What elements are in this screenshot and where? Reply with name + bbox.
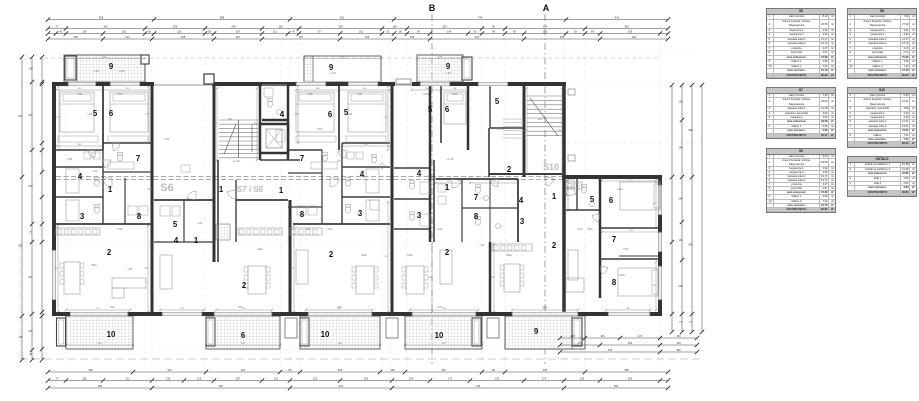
svg-text:233: 233 — [678, 284, 683, 288]
svg-text:5: 5 — [173, 220, 178, 229]
washer room8 unit2 — [297, 206, 306, 215]
svg-text:2: 2 — [242, 281, 247, 290]
svg-text:160: 160 — [676, 341, 681, 345]
svg-text:108: 108 — [390, 368, 395, 372]
svg-text:L03: L03 — [128, 267, 133, 271]
svg-text:P02: P02 — [308, 92, 313, 96]
wall unit-2 left — [287, 84, 290, 160]
window bottom living S9 — [412, 312, 476, 316]
svg-text:108: 108 — [392, 24, 397, 28]
wall room2 mid left — [488, 128, 490, 177]
svg-text:316: 316 — [167, 368, 172, 372]
svg-text:7: 7 — [474, 193, 478, 202]
dining table living A — [64, 262, 80, 294]
bed unit3 — [444, 92, 466, 124]
kitchen right section — [566, 182, 582, 189]
svg-text:259: 259 — [173, 24, 178, 28]
svg-text:160: 160 — [676, 334, 681, 338]
svg-text:+1.45: +1.45 — [446, 157, 454, 161]
partition 7/8 right section — [600, 258, 660, 260]
svg-text:5: 5 — [93, 109, 98, 118]
wall below shaft — [260, 159, 300, 161]
svg-text:4: 4 — [519, 196, 524, 205]
svg-text:216: 216 — [313, 376, 318, 380]
svg-text:190: 190 — [18, 335, 23, 339]
partition small room near stair A — [489, 84, 491, 128]
svg-text:P02: P02 — [118, 92, 123, 96]
svg-text:1: 1 — [108, 185, 113, 194]
partition bath strip 392-430 walls — [394, 167, 430, 169]
svg-text:7: 7 — [300, 154, 304, 163]
svg-text:259: 259 — [628, 29, 633, 33]
stair flight B — [219, 119, 258, 121]
bottom dimension row 2 — [48, 380, 668, 382]
table S9 — [766, 148, 836, 213]
svg-text:P03: P03 — [148, 187, 153, 191]
svg-text:M0a: M0a — [361, 253, 367, 257]
wardrobe strip unit2 — [296, 136, 336, 142]
svg-text:337: 337 — [299, 35, 304, 39]
balcony closet bottom B5 — [572, 318, 582, 346]
svg-text:M0a: M0a — [506, 253, 512, 257]
window right wall bedroom — [658, 185, 662, 215]
svg-text:P01: P01 — [358, 92, 363, 96]
table OSTALO — [847, 156, 917, 197]
svg-text:P05: P05 — [424, 92, 429, 96]
wardrobe strip unit A — [58, 136, 98, 142]
door arc unit A bath — [103, 160, 111, 168]
svg-text:346: 346 — [338, 368, 343, 372]
right dimension column 3 — [691, 85, 693, 332]
svg-text:342: 342 — [103, 24, 108, 28]
partition hall unit A — [102, 150, 104, 224]
svg-text:P01: P01 — [78, 92, 83, 96]
wall living 2/3 separation — [289, 200, 292, 314]
svg-text:164: 164 — [447, 29, 452, 33]
door arc mid 1 — [452, 179, 461, 188]
kitchen S7 — [238, 228, 282, 235]
balcony closet B3 — [300, 318, 309, 346]
sofa S7 — [160, 255, 172, 289]
washer room8 unit A — [128, 206, 137, 215]
svg-text:233: 233 — [495, 376, 500, 380]
svg-text:S10: S10 — [543, 162, 559, 172]
svg-text:8: 8 — [612, 278, 617, 287]
window right wall bed8 — [658, 266, 662, 300]
upper guide dashed dim line — [44, 57, 660, 59]
window right wall section — [658, 232, 662, 252]
door arc terrace A — [545, 177, 554, 186]
svg-text:10: 10 — [107, 330, 116, 339]
svg-text:3: 3 — [80, 212, 85, 221]
bottom dimension row 3 — [48, 387, 668, 389]
svg-text:212: 212 — [125, 35, 130, 39]
axis B dashed line — [431, 14, 433, 364]
svg-text:L03: L03 — [480, 243, 485, 247]
svg-text:P03: P03 — [318, 127, 323, 131]
svg-text:433: 433 — [608, 348, 613, 352]
bottom dimension row 1 — [48, 371, 668, 373]
bath strip fixtures — [410, 183, 415, 189]
svg-text:A: A — [543, 3, 550, 13]
wall stairwell-A left — [523, 84, 526, 177]
svg-text:194: 194 — [678, 197, 683, 201]
svg-text:359: 359 — [624, 24, 629, 28]
svg-text:2: 2 — [445, 248, 450, 257]
balcony 6 bottom (hatched) — [206, 316, 280, 349]
partition S7/S8 corridor bottom — [236, 199, 288, 201]
marker box A wall 1 — [568, 89, 575, 95]
top dimension row 2 — [48, 28, 668, 30]
svg-text:744: 744 — [476, 384, 481, 388]
bath unit A fixtures — [84, 152, 91, 159]
window top unit2 b — [348, 82, 378, 86]
bath right fixtures — [582, 187, 587, 193]
svg-text:M0a: M0a — [617, 187, 623, 191]
wall right-section middle — [599, 177, 602, 298]
svg-text:K02: K02 — [438, 227, 443, 231]
partition 1-5/2 right section — [566, 209, 600, 211]
svg-text:9: 9 — [109, 62, 114, 71]
svg-text:7: 7 — [612, 235, 616, 244]
svg-text:177: 177 — [317, 29, 322, 33]
svg-text:S6: S6 — [160, 182, 173, 194]
svg-text:329: 329 — [560, 35, 565, 39]
bed unit2 room6 — [296, 92, 334, 132]
svg-text:398: 398 — [688, 128, 693, 132]
svg-text:268: 268 — [181, 35, 186, 39]
svg-text:173: 173 — [638, 334, 643, 338]
svg-text:1: 1 — [552, 192, 557, 201]
wall A-axis — [562, 84, 566, 314]
svg-text:B: B — [429, 3, 436, 13]
svg-text:L02: L02 — [360, 169, 365, 173]
partition mid zone left — [433, 160, 435, 242]
svg-text:407: 407 — [475, 35, 480, 39]
partition mid zone top — [436, 178, 518, 180]
svg-text:4: 4 — [174, 236, 179, 245]
svg-text:1.46: 1.46 — [445, 71, 451, 75]
svg-text:238: 238 — [73, 35, 78, 39]
svg-text:2.08: 2.08 — [119, 69, 125, 73]
bath2 unit2 fixtures — [366, 200, 379, 221]
svg-text:M0a: M0a — [257, 247, 263, 251]
svg-text:112: 112 — [273, 29, 278, 33]
svg-text:10: 10 — [321, 330, 330, 339]
svg-text:333: 333 — [441, 368, 446, 372]
partition S7 rooms inner — [183, 200, 185, 242]
step stoop 2 — [386, 318, 398, 338]
svg-text:2: 2 — [552, 241, 557, 250]
balcony top-right closet — [462, 57, 472, 80]
sill gap unit2/3 — [396, 79, 411, 84]
railing gap unit2/3 top — [395, 84, 412, 86]
setback dashed line bottom — [20, 358, 700, 360]
bath unit2 fixtures — [347, 152, 354, 159]
svg-text:359: 359 — [338, 24, 343, 28]
svg-text:P03: P03 — [624, 247, 629, 251]
kitchen living A — [56, 228, 100, 235]
svg-text:246: 246 — [231, 24, 236, 28]
svg-text:M0a: M0a — [587, 227, 593, 231]
dining table S7 — [248, 266, 266, 294]
room 4 strip fixtures (262-288) — [268, 101, 273, 107]
balcony 10 bottom-left (hatched) — [66, 316, 133, 349]
svg-text:K01: K01 — [68, 157, 73, 161]
outer wall top segment 2 (stairwell B) — [212, 82, 288, 86]
balcony 10 bottom-mid (hatched) — [300, 316, 380, 349]
svg-text:K02: K02 — [578, 227, 583, 231]
window left wall living A — [52, 250, 56, 300]
svg-text:L04: L04 — [348, 112, 353, 116]
stair small mid — [503, 118, 524, 120]
svg-text:151: 151 — [678, 100, 683, 104]
svg-text:458: 458 — [99, 15, 104, 19]
svg-text:588: 588 — [220, 15, 225, 19]
svg-text:10: 10 — [435, 331, 444, 340]
svg-text:368: 368 — [88, 368, 93, 372]
svg-text:+1.45: +1.45 — [232, 159, 240, 163]
door arc right section — [566, 186, 576, 196]
top dimension row 1 — [48, 19, 668, 21]
wall room4 bottom — [262, 119, 289, 122]
balcony 10 bottom-right (hatched) — [405, 316, 482, 349]
svg-text:320: 320 — [241, 368, 246, 372]
window top unit3 a — [420, 82, 450, 86]
terrace 9 top-middle — [304, 56, 381, 82]
partition hall unit 2 — [341, 143, 343, 224]
right dimension column 4 — [701, 85, 703, 332]
window top bedroom 6 — [110, 82, 140, 86]
sofa mid2 — [440, 250, 452, 284]
svg-text:108: 108 — [570, 334, 575, 338]
svg-text:294: 294 — [28, 113, 33, 117]
svg-text:L03: L03 — [416, 167, 421, 171]
partition loggia room7 — [619, 255, 660, 257]
unit2 bath fixtures right — [372, 157, 377, 163]
wall living S9 — [489, 242, 492, 314]
svg-text:1: 1 — [445, 183, 450, 192]
svg-text:129: 129 — [197, 376, 202, 380]
outer wall left — [52, 82, 56, 316]
outer wall right section top — [562, 175, 662, 179]
svg-text:M0a: M0a — [91, 263, 97, 267]
svg-text:2.08: 2.08 — [93, 69, 99, 73]
terrace S6 small box — [181, 165, 190, 172]
svg-text:+2.88: +2.88 — [496, 127, 504, 131]
door arc right bed8 — [600, 266, 608, 274]
wall stub top 1 — [141, 55, 149, 64]
svg-text:160: 160 — [82, 29, 87, 33]
partition 4/3 unit A — [56, 196, 103, 198]
svg-text:324: 324 — [442, 24, 447, 28]
svg-text:259: 259 — [628, 341, 633, 345]
svg-text:441: 441 — [615, 15, 620, 19]
section line horizontal dashed pair — [56, 176, 562, 178]
svg-text:3: 3 — [417, 211, 422, 220]
guide dashed right mid — [560, 142, 702, 144]
svg-text:108: 108 — [28, 67, 33, 71]
kitchen S9 dining — [492, 244, 532, 251]
door arc unit2 bed — [338, 150, 346, 158]
axis A dashed line — [544, 14, 546, 364]
svg-text:220: 220 — [177, 29, 182, 33]
table S7 — [766, 87, 836, 139]
right dimension column 1 — [671, 85, 673, 332]
svg-text:207: 207 — [236, 35, 241, 39]
svg-text:5: 5 — [428, 105, 433, 114]
svg-text:7: 7 — [136, 154, 140, 163]
balcony 9 top-left closet — [65, 56, 76, 80]
construction guide lines — [65, 42, 67, 368]
corridor wall right of stair B — [217, 160, 219, 262]
partition 7-4/8-3 mid — [462, 207, 518, 209]
window top bedroom 5 — [68, 82, 96, 86]
outer wall top segment 4 — [412, 82, 566, 86]
bed room5 unit A — [60, 92, 94, 132]
kitchen unit2 — [290, 228, 322, 235]
svg-text:5: 5 — [495, 97, 500, 106]
partition 6/7 right section — [600, 227, 660, 229]
step stoop 1 — [285, 318, 297, 338]
bath mid fixtures — [476, 187, 481, 193]
svg-text:6: 6 — [609, 196, 614, 205]
wall B-axis — [429, 84, 432, 242]
dining table mid1 — [356, 266, 374, 294]
svg-text:1: 1 — [279, 186, 284, 195]
svg-text:164: 164 — [678, 238, 683, 242]
svg-text:311: 311 — [29, 275, 34, 279]
svg-text:S7 i S8: S7 i S8 — [237, 185, 264, 194]
outer wall bottom — [52, 312, 662, 316]
svg-text:246: 246 — [678, 146, 683, 150]
outer wall top segment 1 — [52, 82, 154, 86]
door arc unit A bed5 — [88, 150, 96, 158]
svg-text:V01: V01 — [110, 305, 115, 309]
dining table S9 — [504, 264, 520, 292]
svg-text:L03: L03 — [306, 227, 311, 231]
svg-text:181: 181 — [122, 29, 127, 33]
svg-text:2: 2 — [507, 165, 512, 174]
stair flight A — [527, 95, 562, 97]
svg-text:181: 181 — [543, 29, 548, 33]
bed room6 unit A — [110, 92, 148, 132]
svg-text:S01: S01 — [228, 117, 233, 121]
svg-text:207: 207 — [236, 376, 241, 380]
sofa living A — [112, 278, 146, 288]
partition 5/6 unit A — [102, 86, 104, 150]
top dimension row 4 — [48, 38, 668, 40]
svg-text:450: 450 — [614, 384, 619, 388]
dining table mid2 — [406, 266, 424, 294]
sofa mid1 — [296, 250, 308, 284]
svg-text:1: 1 — [219, 185, 224, 194]
door arc unit2 hall — [330, 178, 339, 187]
svg-text:6: 6 — [328, 110, 333, 119]
terrace 9 bottom (hatched) — [505, 316, 585, 349]
partition mid zone right — [517, 179, 519, 242]
svg-text:138: 138 — [166, 376, 171, 380]
railing corridor gap top — [262, 84, 288, 86]
partition 3-8/2 unit A — [56, 223, 152, 225]
partition x236 — [235, 180, 237, 242]
window top unit3 b — [478, 82, 508, 86]
table S10 — [847, 87, 917, 148]
outer wall top segment 3 — [286, 82, 395, 86]
left dimension column 3 — [41, 57, 43, 360]
window bottom 6-balcony — [214, 312, 272, 316]
svg-text:K02: K02 — [328, 227, 333, 231]
door arc S7 — [187, 191, 196, 200]
svg-text:T01: T01 — [165, 137, 170, 141]
right dimension column 2 — [681, 85, 683, 332]
svg-text:744: 744 — [478, 15, 483, 19]
partition below bedrooms unit 2 — [288, 149, 322, 151]
step stoop 3 — [487, 318, 499, 338]
svg-text:160: 160 — [676, 348, 681, 352]
partition 3-8/2 unit 2 — [293, 223, 390, 225]
closet hatch stair B — [216, 224, 230, 240]
bed right section room6 — [620, 182, 660, 210]
svg-text:173: 173 — [542, 376, 547, 380]
partition 5/6 unit3 — [440, 86, 442, 143]
wash machines mid — [438, 184, 446, 192]
svg-text:259: 259 — [628, 376, 633, 380]
wall room2 mid bottom — [489, 173, 564, 175]
table right section — [566, 278, 584, 292]
partition below bedrooms unit A — [56, 149, 103, 151]
balcony closet bottom-left — [57, 318, 66, 346]
svg-text:519: 519 — [18, 114, 23, 118]
svg-text:597: 597 — [219, 384, 224, 388]
marker box A wall 2 — [568, 155, 575, 161]
svg-text:3: 3 — [358, 209, 363, 218]
table S8 — [847, 8, 917, 79]
partition 1/7 mid — [461, 179, 463, 242]
svg-text:450: 450 — [340, 15, 345, 19]
balcony closet B2 — [206, 318, 215, 346]
svg-text:M0a: M0a — [407, 253, 413, 257]
svg-text:155: 155 — [28, 329, 33, 333]
svg-text:9: 9 — [534, 327, 539, 336]
svg-text:233: 233 — [365, 35, 370, 39]
sofa right section — [568, 250, 578, 280]
svg-text:5: 5 — [590, 195, 595, 204]
svg-text:155: 155 — [580, 376, 585, 380]
wall stairwell-B left — [213, 84, 216, 262]
svg-text:346: 346 — [543, 368, 548, 372]
wall unit-A right — [151, 84, 154, 314]
door arc stairB entry — [227, 190, 236, 199]
wall unit-2 right — [391, 84, 394, 314]
wall stairwell-B right — [259, 84, 262, 160]
svg-text:8: 8 — [474, 212, 479, 221]
svg-text:6: 6 — [241, 331, 246, 340]
svg-text:L03: L03 — [198, 221, 203, 225]
svg-text:294: 294 — [632, 35, 637, 39]
balcony closet B4 — [472, 318, 481, 346]
svg-text:601: 601 — [18, 244, 23, 248]
svg-text:441: 441 — [339, 384, 344, 388]
svg-text:225: 225 — [364, 376, 369, 380]
door arc mid 2 — [490, 179, 498, 187]
svg-text:160: 160 — [278, 24, 283, 28]
svg-text:181: 181 — [359, 29, 364, 33]
left dimension column 1 — [21, 57, 23, 360]
elevator shaft stair B — [260, 124, 288, 153]
svg-text:1.46: 1.46 — [330, 71, 336, 75]
svg-text:4: 4 — [78, 172, 83, 181]
